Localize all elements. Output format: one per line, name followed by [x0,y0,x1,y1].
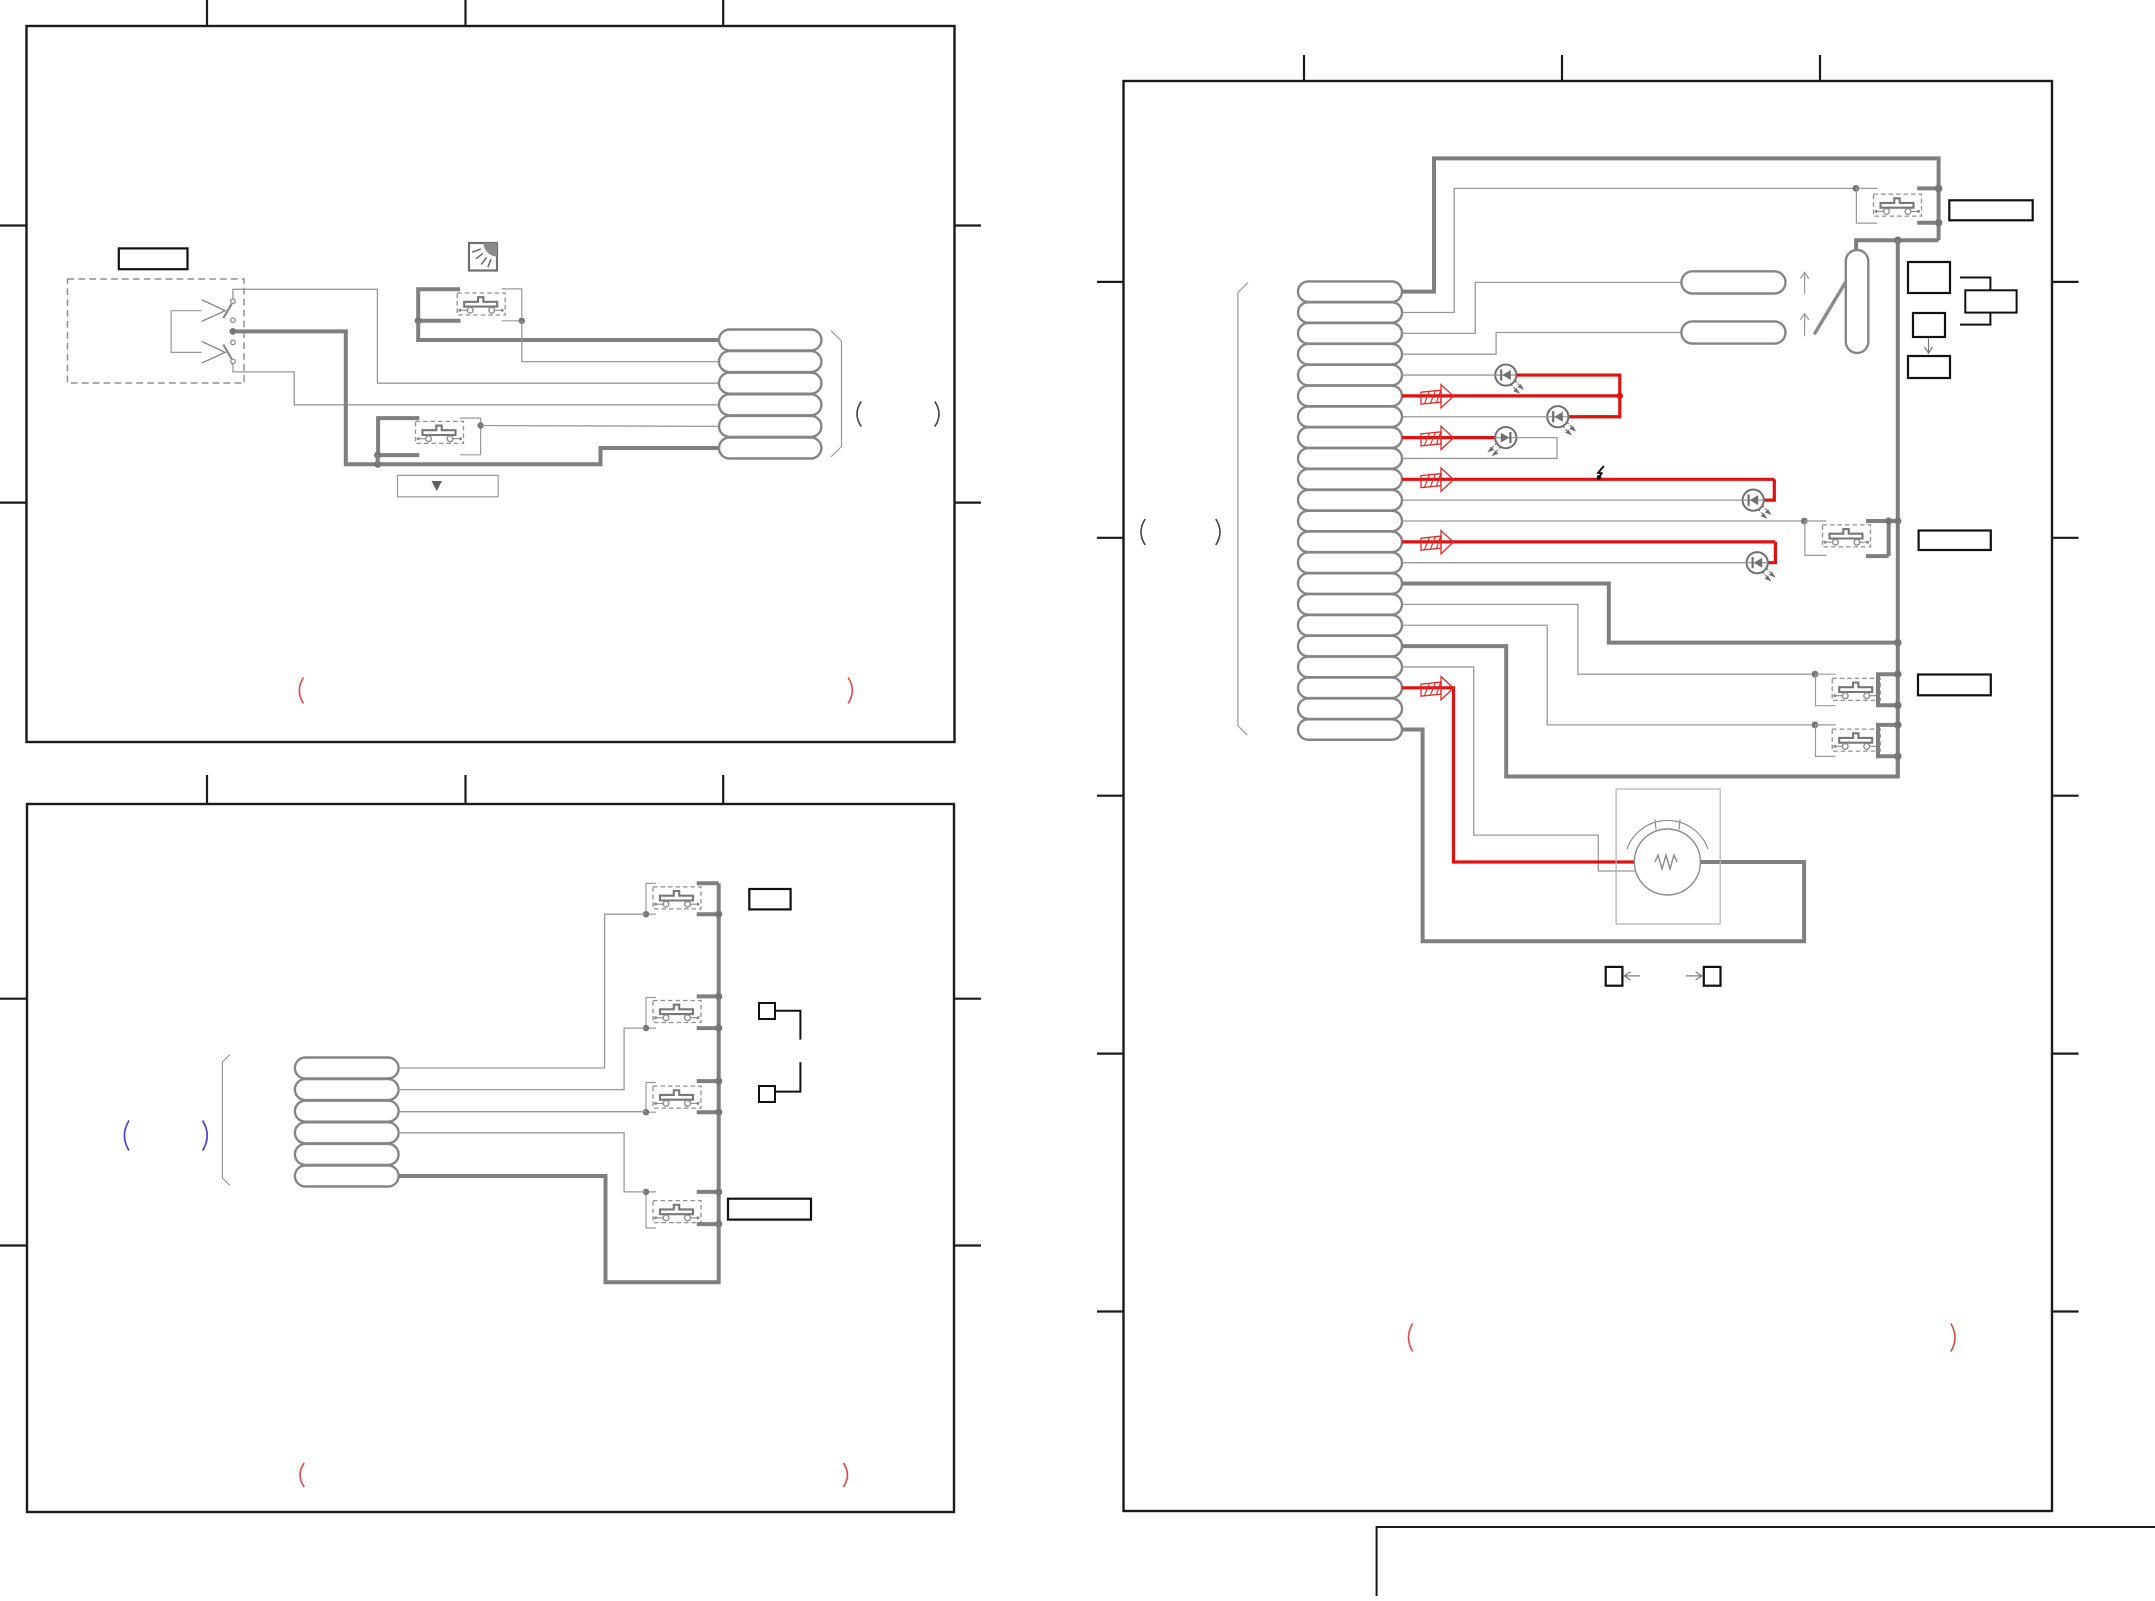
wire: pin2 to switch SW8 [1402,188,1853,312]
bus junction dot r15 [1894,639,1902,647]
light icon (lamp symbol) [469,243,497,271]
lamp pill A [1681,271,1785,293]
SW7 right bracket (thick) [697,1192,719,1224]
red drop to D5 [1764,479,1774,500]
wire: pin8 red to D3 [1402,436,1495,439]
lever slash [1814,282,1846,335]
tick marks: right page right edge [2052,282,2079,1312]
SW3 junction dots [374,452,381,468]
red branch to D2 [1568,396,1619,417]
wire: pin14 to D6 [1402,562,1747,564]
connector CN2 bracket [222,1055,230,1186]
S1 contact bottom [231,359,236,364]
bracket from terminal A [775,1011,800,1040]
legend step bracket [1960,278,2017,325]
wire: S1 bottom contact to connector pin 4 [233,364,719,405]
S1 contact top [231,299,236,304]
wire: pin1 thick to top rail [1402,158,1939,291]
wire: CN2 pin3 to SW6 [399,1111,646,1113]
SW7 left junction dot [643,1189,649,1195]
SW10 label box [1918,675,1991,696]
wire: pin12 to switch SW9 [1402,520,1801,522]
wire: SW3 right pin to connector pin 5 [481,425,719,428]
rail junction dot [1894,237,1902,245]
frame: top-left panel border [27,26,955,742]
wire: CN2 pin2 to SW5 [399,1028,646,1090]
motor M outer box [1616,789,1720,924]
S1 actuator arrow upper [202,300,225,322]
LED D6 [1747,552,1775,580]
SW3 left bracket (thick) [378,418,419,455]
label box with down triangle [398,475,499,496]
SW9 left bracket (thin) [1805,521,1827,555]
switch SW8 (push switch) [1874,194,1922,216]
wire: pin19 to motor brush [1402,667,1652,871]
S1 contact 2 [231,318,236,323]
SW3 right bracket (thin) [460,418,481,455]
wire: pin7 to D2 [1402,416,1547,418]
LED D3 [1489,427,1517,455]
lamp pill B [1681,321,1785,343]
SW3 right junction dot [477,422,483,428]
SW10 bus dots [1894,670,1902,709]
SW9 label box [1919,531,1991,551]
wire: D3 return to pin9 [1402,438,1557,459]
up arrow 2 [1800,314,1809,337]
wire: pin10 red to D5 [1402,478,1774,481]
LED D2 [1547,406,1575,434]
SW7 label box [728,1199,811,1220]
label box (empty) top-left [119,248,188,269]
wire: S1 top contact to connector pin 3 [233,289,719,383]
frame: bottom-left panel border [27,804,954,1512]
small square terminal B [759,1086,775,1102]
wire: pin4 to lamp pill B [1402,333,1681,355]
SW8 right bracket (thick) [1917,186,1938,240]
wire: pin18 thick to bus bottom [1402,646,1898,776]
SW8 bus junction dots [1935,185,1943,227]
wire: CN2 pin4 to SW7 [399,1133,646,1192]
main bus (thick vertical) right page [1896,240,1900,776]
motor resistor element [1655,855,1677,869]
SW5 left junction dot [643,1025,649,1031]
legend box 1 [1908,262,1950,293]
arrow toward right square [1686,972,1702,980]
bracket from terminal B [775,1062,800,1091]
SW2 right bracket (thin) [502,289,522,321]
SW11 bus dots [1894,721,1902,760]
switch SW11 (push switch) [1832,729,1880,751]
legend box 2 [1913,313,1945,337]
frame: right page border [1124,81,2053,1511]
red parentheses caption top-left panel [299,678,303,704]
up arrow 1 [1800,272,1809,294]
arrow toward left square [1624,972,1640,980]
wire: CN2 pin1 to SW4 [399,914,646,1068]
LED D1 [1495,364,1523,392]
connector CN3 bracket [1238,283,1248,736]
parentheses label near CN1 [857,402,861,427]
SW11 left bracket (thin) [1816,725,1836,757]
SW10 left junction dot [1812,671,1819,678]
wire: pin13 red to D6 [1402,540,1775,543]
SW5 right bracket (thick) [697,996,719,1028]
small square terminal A [759,1003,775,1019]
switch SW6 (push switch) [653,1086,701,1108]
SW11 left junction dot [1812,722,1819,729]
motor terminal square right [1704,967,1721,986]
S1 contact 3 [231,340,236,345]
tick marks: left page right edge [954,226,981,1246]
legend arrow down [1924,338,1932,354]
switch SW5 (push switch) [653,1001,701,1023]
red drop to D6 [1768,542,1775,563]
SW7 left bracket (thin) [646,1192,656,1228]
SW10 right bracket (thick) [1876,674,1898,705]
switch SW7 (push switch) [653,1201,701,1223]
rail: top thick corner to lever pivot [1856,240,1939,249]
red arrow pin20 [1421,677,1454,700]
wire: pin20 red to motor [1402,688,1655,862]
red junction dot [1617,393,1623,399]
tick marks: left page left edge [0,226,27,1246]
SW6 left bracket (thin) [646,1083,656,1113]
motor terminal square left [1606,967,1623,986]
S1 actuator arrow lower [202,341,225,363]
legend box 3 [1908,356,1950,378]
switch SW4 (push switch) [653,887,701,909]
connector CN3 pins (22) [1298,281,1402,739]
SW6 left junction dot [643,1109,649,1115]
SW5 left bracket (thin) [646,998,656,1029]
SW4 left bracket (thin) [646,883,656,914]
LED D5 [1743,490,1771,518]
SW8 label box [1949,200,2032,220]
red arrow pin13 [1421,531,1454,554]
SW6 right bracket (thick) [697,1081,719,1112]
red arrow pin8 [1421,426,1454,449]
wire: SW2 to connector pin 1 (thick) [418,321,719,340]
connector CN2 pins (6) [295,1058,399,1187]
SW4 right bracket (thick) [697,883,719,914]
SW9 left junction dot [1801,518,1808,525]
tick marks: right page left edge [1097,282,1124,1312]
wire: S1 common thick to lower area [236,331,719,464]
switch SW10 (push switch) [1832,678,1880,700]
tick marks: left page top edge [207,0,723,26]
wire: SW2 right pin to connector pin 2 [522,321,719,362]
wire: pin15 thick to bus [1402,584,1898,643]
SW11 right bracket (thick) [1876,725,1898,756]
lightning bolt marker [1597,466,1603,480]
blue parentheses caption [124,1121,129,1151]
red arrow pin6 [1421,385,1454,408]
red parentheses caption bottom-left panel [300,1463,304,1487]
S1 blade lower [223,345,231,359]
wire: CN2 pin6 thick to bus bottom [399,1176,719,1282]
motor M body circle [1634,829,1700,895]
SW2 left bracket (thick) [418,289,460,321]
red arrow pin10 [1421,468,1454,491]
switch S1 dashed enclosure (DPDT leaf switch) [68,279,245,383]
SW8 left bracket (thin) [1856,188,1877,223]
wire: pin16 to switch SW10 [1402,604,1811,674]
bus wire (thick vertical) bottom-left panel [717,883,721,1224]
SW9 right bracket (thick) [1866,519,1898,556]
S1 blade upper [223,304,231,318]
tick marks: between left panels [207,775,723,804]
switch SW9 (push switch) [1823,525,1871,547]
SW4 label box [749,889,790,909]
SW4 left junction dot [643,911,649,917]
SW2 junction dot [415,317,422,324]
parentheses label near CN3 [1141,519,1145,545]
S1 common node [230,328,237,335]
tick marks: right page top edge [1304,55,1820,81]
frame: bottom-right title block (partial) [1377,1527,2155,1596]
lever actuator pill (vertical) [1846,250,1869,353]
bus junction dots [715,911,722,1228]
switch SW2 (push switch) [457,293,505,315]
SW9 junction dots [1885,517,1901,524]
SW10 left bracket (thin) [1816,674,1836,706]
motor commutator arc [1627,820,1708,850]
wire: pin11 to D5 [1402,499,1743,501]
S1 actuator bracket wire [171,311,202,353]
red branch to D1 [1516,375,1619,396]
switch SW8 left junction dot [1853,185,1860,192]
connector CN1 pins (6) [719,330,821,459]
connector CN1 bracket [831,331,841,457]
wire: pin17 to switch SW11 [1402,625,1811,725]
wire: pin22 thick motor return loop [1402,730,1804,942]
wire: pin5 to D1 [1402,374,1495,376]
wire: pin3 to lamp pill A [1402,282,1681,333]
red parentheses caption right page [1409,1324,1413,1352]
SW2 right junction dot [519,318,525,324]
wire: pin6 red feed [1402,394,1620,397]
switch SW3 (push switch) [416,421,464,443]
